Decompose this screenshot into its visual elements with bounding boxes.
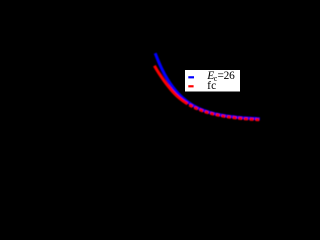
legend key red line	[188, 85, 193, 87]
svg-text:fc: fc	[207, 80, 216, 92]
legend key blue line	[188, 76, 194, 78]
red dashed curve (steep start renders merged/solid)	[154, 66, 184, 102]
svg-text:=26: =26	[218, 70, 236, 82]
legend box	[185, 70, 240, 92]
red dashed curve tail	[184, 102, 260, 120]
blue solid curve	[155, 53, 260, 119]
